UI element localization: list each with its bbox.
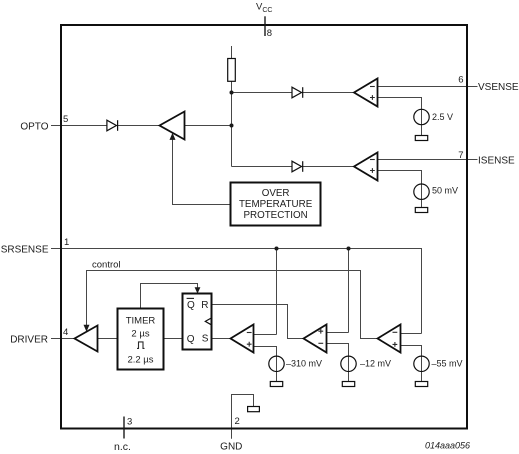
- svg-text:control: control: [92, 260, 121, 271]
- svg-text:S: S: [202, 334, 209, 345]
- svg-text:Q: Q: [187, 300, 195, 311]
- svg-text:GND: GND: [220, 442, 242, 453]
- svg-text:7: 7: [458, 150, 463, 161]
- svg-text:3: 3: [127, 417, 132, 428]
- svg-text:014aaa056: 014aaa056: [425, 441, 470, 451]
- svg-text:R: R: [201, 300, 208, 311]
- svg-text:ISENSE: ISENSE: [478, 155, 515, 166]
- svg-text:DRIVER: DRIVER: [10, 334, 48, 345]
- svg-text:2.2 µs: 2.2 µs: [127, 354, 153, 365]
- svg-text:VSENSE: VSENSE: [478, 82, 519, 93]
- svg-text:2: 2: [235, 416, 240, 427]
- svg-text:1: 1: [64, 237, 69, 248]
- svg-text:2.5 V: 2.5 V: [432, 112, 453, 122]
- svg-text:50 mV: 50 mV: [432, 186, 458, 196]
- svg-text:SRSENSE: SRSENSE: [1, 245, 49, 256]
- svg-text:–12 mV: –12 mV: [360, 359, 391, 369]
- svg-text:–55 mV: –55 mV: [432, 359, 463, 369]
- svg-text:TIMER: TIMER: [126, 316, 156, 327]
- svg-text:2 µs: 2 µs: [131, 328, 149, 339]
- svg-text:8: 8: [267, 28, 272, 39]
- svg-text:n.c.: n.c.: [114, 441, 131, 453]
- svg-text:TEMPERATURE: TEMPERATURE: [239, 199, 313, 210]
- svg-text:–310 mV: –310 mV: [286, 359, 322, 369]
- svg-text:OPTO: OPTO: [20, 122, 48, 133]
- svg-text:6: 6: [458, 75, 463, 86]
- svg-text:PROTECTION: PROTECTION: [243, 210, 307, 221]
- svg-text:5: 5: [63, 114, 68, 125]
- svg-text:Q: Q: [187, 334, 195, 345]
- svg-text:4: 4: [63, 327, 68, 338]
- svg-text:OVER: OVER: [262, 188, 290, 199]
